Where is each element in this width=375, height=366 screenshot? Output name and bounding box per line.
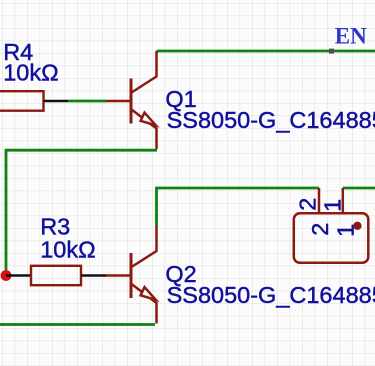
Q2 emitter arrow bbox=[141, 287, 156, 300]
wire EN net top bbox=[157, 50, 375, 53]
svg-text:10kΩ: 10kΩ bbox=[3, 60, 58, 86]
pin 1 marker dot bbox=[353, 222, 361, 230]
resistor R4 body bbox=[0, 91, 44, 111]
resistor R4 right pin lead bbox=[44, 100, 69, 103]
Q2 base lead bbox=[106, 274, 131, 277]
wire Q1 emitter to left rail bbox=[6, 150, 157, 276]
resistor R3 left pin lead bbox=[6, 274, 31, 277]
Q2 base bar bbox=[130, 253, 133, 298]
wire Q2 emitter to bottom rail bbox=[0, 323, 155, 326]
resistor R3 body bbox=[31, 266, 81, 285]
Q1 collector bbox=[132, 51, 157, 93]
svg-text:2: 2 bbox=[307, 223, 333, 236]
Q1 emitter arrow bbox=[141, 113, 156, 126]
Q1 base lead bbox=[106, 100, 131, 103]
svg-text:1: 1 bbox=[320, 199, 346, 212]
svg-text:EN: EN bbox=[335, 23, 367, 48]
Q1 base bar bbox=[130, 79, 133, 124]
Q2 emitter bbox=[132, 284, 157, 324]
Q1 emitter bbox=[132, 110, 157, 150]
svg-text:2: 2 bbox=[295, 198, 321, 211]
transistor Q1 bbox=[106, 51, 157, 149]
pin name 1 foot serif bbox=[352, 225, 354, 234]
connector CN body bbox=[294, 213, 369, 262]
connector pin 2 bbox=[318, 188, 321, 213]
net label anchor marker bbox=[329, 49, 334, 54]
svg-text:10kΩ: 10kΩ bbox=[40, 237, 95, 263]
junction dot bbox=[1, 270, 12, 281]
pin number 1 foot serif bbox=[338, 200, 340, 208]
transistor Q2 bbox=[106, 226, 157, 324]
Q2 collector bbox=[132, 226, 157, 268]
svg-text:SS8050-G_C164885: SS8050-G_C164885 bbox=[167, 107, 375, 133]
wire connector pin1 to right bbox=[343, 187, 375, 190]
wire Q2 collector to connector bbox=[157, 188, 320, 226]
resistor R3 right pin lead bbox=[81, 274, 106, 277]
wire R4 to Q1 base bbox=[68, 100, 106, 103]
svg-text:SS8050-G_C164885: SS8050-G_C164885 bbox=[167, 282, 375, 308]
connector pin 1 bbox=[342, 188, 345, 213]
